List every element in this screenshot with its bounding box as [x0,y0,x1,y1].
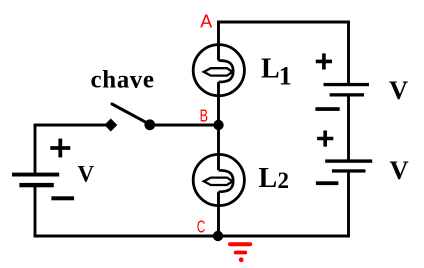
wire top: node A to right branch [217,21,350,24]
svg-text:V: V [390,155,409,185]
wire right vertical middle (between batteries) [347,97,350,160]
battery V right-bottom: long plate [325,159,372,162]
svg-text:V: V [389,75,408,105]
svg-text:2: 2 [278,168,290,193]
battery V right-bottom: minus sign [316,181,339,185]
battery V right-top: short plate [330,93,364,96]
battery V left: plus sign [50,139,70,158]
svg-text:A: A [200,11,212,31]
switch terminal diamond [104,118,117,131]
battery V left: short plate [19,183,53,187]
wire right vertical lower (battery to bottom) [347,173,350,236]
wire left vertical upper (to battery) [34,124,37,173]
svg-text:L: L [259,163,278,194]
battery V right-top: plus sign [316,53,332,69]
svg-text:1: 1 [279,62,292,91]
battery V right-top: minus sign [315,107,339,111]
wire lamp branch: A corner to L1 [217,21,220,45]
battery V right-bottom: plus sign [317,131,333,147]
ground bar 1 [228,242,252,246]
node B dot [213,120,223,130]
wire switch to node B [149,124,219,127]
wire right vertical upper (to battery V top plate) [347,21,350,83]
lamp L2 [193,154,244,205]
switch lever [112,104,150,124]
svg-text:L: L [261,54,280,85]
battery V right-bottom: short plate [332,169,366,172]
wire L2 to node C [217,205,220,236]
svg-text:chave: chave [91,67,155,94]
lamp L1 [193,45,244,96]
svg-text:V: V [78,162,95,187]
wire left horizontal to switch [35,124,111,127]
battery V right-top: long plate [324,83,370,86]
wire between L1 and L2 through node B [217,96,220,156]
node C dot [213,231,223,241]
wire left vertical lower (battery to bottom) [34,187,37,237]
ground bar 2 [234,251,247,255]
switch pivot dot [144,119,155,130]
ground dot [239,257,244,262]
wire bottom: full width [34,235,350,238]
battery V left: minus sign [51,196,74,200]
svg-text:C: C [197,217,206,237]
svg-text:B: B [200,106,208,126]
battery V left: long plate [12,173,59,177]
